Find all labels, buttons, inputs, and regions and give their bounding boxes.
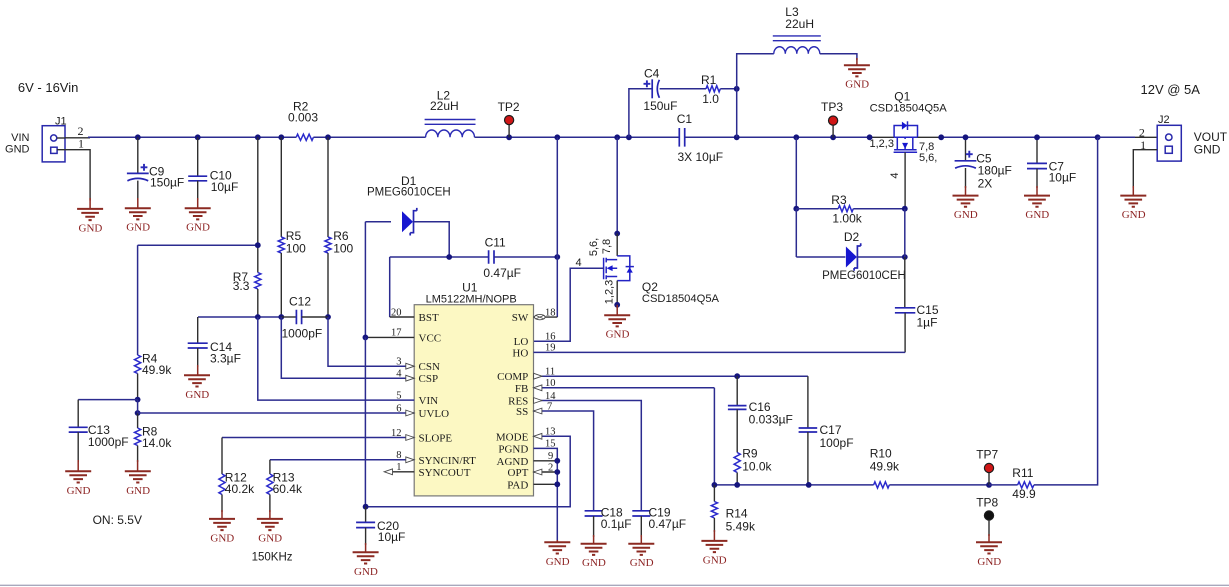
svg-text:UVLO: UVLO xyxy=(419,408,450,420)
wire FB node row xyxy=(713,388,715,485)
svg-text:MODE: MODE xyxy=(496,431,529,443)
svg-text:VIN: VIN xyxy=(419,395,439,407)
wire bus to J2 xyxy=(1098,136,1135,138)
junction R1 to L3 riser xyxy=(734,86,740,92)
capacitor C12 1000pF xyxy=(281,316,296,318)
svg-text:GND: GND xyxy=(79,222,103,234)
resistor R9 10.0k xyxy=(736,409,738,452)
junction C10 tap xyxy=(195,134,201,140)
pin PAD stub xyxy=(534,483,558,485)
junction Q1 source side xyxy=(867,134,873,140)
wire Q1 gate down xyxy=(904,152,906,208)
svg-text:GND: GND xyxy=(126,485,150,497)
svg-text:GND: GND xyxy=(210,532,234,544)
test point TP2 xyxy=(508,124,510,137)
svg-text:2: 2 xyxy=(548,462,553,473)
connector J2 xyxy=(1157,125,1181,161)
ground L3 xyxy=(844,65,870,76)
capacitor C11 0.47uF xyxy=(489,250,494,263)
svg-text:LM5122MH/NOPB: LM5122MH/NOPB xyxy=(426,294,517,306)
resistor R7 3.3 xyxy=(257,137,259,272)
wire C15 to HO xyxy=(904,313,906,353)
svg-text:15: 15 xyxy=(545,439,556,450)
wire VIN bus xyxy=(88,136,296,138)
ground R12 xyxy=(209,519,235,530)
pin 1 SYNCOUT stub xyxy=(393,471,415,473)
svg-text:C12: C12 xyxy=(289,295,311,309)
wire R11 to output xyxy=(1034,137,1098,485)
transistor Q2 CSD18504Q5A xyxy=(604,256,630,281)
junction R6 tap xyxy=(325,134,331,140)
svg-text:22uH: 22uH xyxy=(430,99,459,113)
svg-text:49.9k: 49.9k xyxy=(870,460,900,474)
junction TP2 tap xyxy=(506,134,512,140)
svg-text:16: 16 xyxy=(545,332,556,343)
junction R4/C13 xyxy=(135,397,141,403)
junction TP3 tap xyxy=(830,134,836,140)
wire VIN to R4 xyxy=(138,244,258,246)
junction D2 cathode / gate xyxy=(902,254,908,260)
wire output bus xyxy=(918,136,942,138)
capacitor C17 100pF xyxy=(807,376,809,428)
op-amp U1 LM5122MH/NOPB controller body xyxy=(414,305,533,496)
svg-text:TP7: TP7 xyxy=(976,448,998,462)
pin 7 SS stub xyxy=(534,411,594,511)
svg-text:GND: GND xyxy=(606,329,630,341)
resistor R12 40.2k xyxy=(221,438,223,475)
ground Q2 xyxy=(604,315,630,326)
svg-text:TP3: TP3 xyxy=(821,100,843,114)
svg-text:GND: GND xyxy=(845,79,869,91)
wire L3 to ground xyxy=(820,54,857,60)
pin 9 AGND stub xyxy=(534,460,558,462)
svg-text:13: 13 xyxy=(545,427,556,438)
svg-text:5: 5 xyxy=(396,390,401,401)
svg-text:10µF: 10µF xyxy=(1049,171,1077,185)
junction UVLO tap xyxy=(135,410,141,416)
svg-text:GND: GND xyxy=(185,389,209,401)
junction MODE tie to VCC xyxy=(363,504,369,510)
junction C7 tap xyxy=(1034,134,1040,140)
wire C4 branch up xyxy=(629,89,652,138)
svg-text:1000pF: 1000pF xyxy=(88,435,129,449)
junction VCC vertical xyxy=(363,335,369,341)
svg-text:GND: GND xyxy=(186,222,210,234)
junction CSN node xyxy=(325,314,331,320)
svg-text:5.49k: 5.49k xyxy=(726,520,756,534)
capacitor C4 150uF xyxy=(644,80,651,87)
svg-text:8: 8 xyxy=(396,450,401,461)
svg-text:GND: GND xyxy=(5,144,30,156)
svg-text:OPT: OPT xyxy=(508,467,529,479)
test point TP8 xyxy=(984,511,993,520)
svg-text:0.003: 0.003 xyxy=(288,111,318,125)
junction PAD xyxy=(554,481,560,487)
svg-text:1000pF: 1000pF xyxy=(282,327,323,341)
svg-text:GND: GND xyxy=(630,557,654,569)
resistor R4 49.9k xyxy=(135,355,141,374)
resistor R8 14.0k xyxy=(137,413,139,428)
capacitor C15 1uF xyxy=(895,308,915,313)
wire J1 pin2 to bus xyxy=(57,137,65,139)
wire L3 riser xyxy=(736,89,738,138)
wire BST row xyxy=(389,257,391,317)
svg-text:PMEG6010CEH: PMEG6010CEH xyxy=(367,187,451,199)
junction COMP branch xyxy=(734,373,740,379)
svg-text:10: 10 xyxy=(545,378,556,389)
wire C13 to divider xyxy=(78,399,137,401)
junction R3 left xyxy=(793,206,799,212)
svg-text:100pF: 100pF xyxy=(820,436,854,450)
svg-text:1: 1 xyxy=(78,137,84,151)
page frame bottom edge xyxy=(0,584,1229,586)
capacitor C9 150uF xyxy=(137,137,139,173)
resistor R3 1.00k xyxy=(796,208,838,210)
capacitor C13 1000pF xyxy=(77,400,79,428)
svg-text:R14: R14 xyxy=(726,507,748,521)
svg-text:17: 17 xyxy=(391,328,402,339)
svg-text:19: 19 xyxy=(545,343,556,354)
svg-text:R1: R1 xyxy=(701,73,717,87)
svg-text:PAD: PAD xyxy=(507,479,528,491)
svg-text:TP2: TP2 xyxy=(498,100,520,114)
capacitor C1 3X 10uF (series plates on bus) xyxy=(679,128,684,147)
ground C20 xyxy=(353,552,379,563)
resistor R13 60.4k xyxy=(269,460,271,474)
svg-text:CSD18504Q5A: CSD18504Q5A xyxy=(642,293,720,305)
pin 8 SYNCIN/RT stub xyxy=(270,459,414,461)
junction Q2 drain xyxy=(614,231,620,237)
svg-text:J1: J1 xyxy=(55,115,67,127)
svg-text:12: 12 xyxy=(391,428,402,439)
test point TP3 xyxy=(832,125,834,138)
svg-text:4: 4 xyxy=(576,257,582,269)
junction FB/R14 xyxy=(712,482,718,488)
junction C5 tap xyxy=(963,134,969,140)
wire SW vertical xyxy=(556,137,558,257)
junction CSP node xyxy=(278,314,284,320)
svg-text:C11: C11 xyxy=(485,236,506,250)
svg-text:GND: GND xyxy=(1194,142,1221,156)
wire CSP node row with C14 tap xyxy=(198,316,258,318)
svg-text:100: 100 xyxy=(286,241,306,255)
svg-text:HO: HO xyxy=(512,347,528,359)
wire TP8 to ground xyxy=(988,520,990,536)
pin 20 BST stub xyxy=(390,316,415,318)
svg-text:6: 6 xyxy=(396,403,401,414)
wire Q2 source xyxy=(616,281,618,305)
svg-text:3X 10µF: 3X 10µF xyxy=(678,150,724,164)
ground C19 xyxy=(628,544,654,555)
transistor Q1 CSD18504Q5A xyxy=(894,126,918,153)
wire J1 pin1 to ground xyxy=(57,150,90,201)
svg-text:14: 14 xyxy=(545,391,556,402)
svg-text:R3: R3 xyxy=(831,193,847,207)
pin 15 PGND stub xyxy=(534,448,558,542)
pin 4 CSP stub xyxy=(281,317,414,378)
resistor R10 49.9k xyxy=(874,482,890,488)
wire bus C1 to Q1 xyxy=(685,136,870,138)
svg-text:VCC: VCC xyxy=(419,332,442,344)
svg-text:FB: FB xyxy=(515,383,528,395)
svg-text:CSD18504Q5A: CSD18504Q5A xyxy=(870,102,948,114)
svg-text:C1: C1 xyxy=(677,112,693,126)
svg-text:CSP: CSP xyxy=(419,373,439,385)
capacitor C14 3.3uF xyxy=(197,317,199,343)
resistor R6 100 xyxy=(327,137,329,237)
svg-text:150µF: 150µF xyxy=(150,175,184,189)
svg-text:BST: BST xyxy=(419,312,439,324)
svg-text:J2: J2 xyxy=(1158,114,1170,126)
pin 19 HO stub xyxy=(534,351,906,353)
junction C4 branch tap xyxy=(626,134,632,140)
svg-text:R11: R11 xyxy=(1012,466,1033,480)
svg-text:AGND: AGND xyxy=(497,456,529,468)
junction R3 branch tap xyxy=(793,134,799,140)
pin 11 COMP stub xyxy=(534,375,808,377)
svg-text:GND: GND xyxy=(258,532,282,544)
svg-text:ON: 5.5V: ON: 5.5V xyxy=(93,513,142,527)
junction R4 top on R7 branch xyxy=(255,242,261,248)
svg-text:4: 4 xyxy=(396,369,402,380)
svg-text:11: 11 xyxy=(545,367,555,378)
diode D1 PMEG6010CEH xyxy=(402,211,413,232)
junction R7/VIN node xyxy=(255,314,261,320)
svg-text:4: 4 xyxy=(889,172,901,178)
svg-text:0.033µF: 0.033µF xyxy=(749,412,793,426)
wire D1 cathode to C11 row xyxy=(414,222,450,257)
junction C9 tap xyxy=(135,134,141,140)
svg-text:1µF: 1µF xyxy=(917,316,938,330)
ground C14 xyxy=(184,375,210,386)
ground R8 xyxy=(125,471,151,482)
wire D2 branch xyxy=(795,209,797,257)
svg-text:0.47µF: 0.47µF xyxy=(649,517,687,531)
svg-text:1,2,3: 1,2,3 xyxy=(870,138,894,150)
resistor R2 0.003 shunt xyxy=(296,134,313,140)
svg-text:1.00k: 1.00k xyxy=(832,212,862,226)
svg-text:COMP: COMP xyxy=(497,371,528,383)
svg-text:GND: GND xyxy=(703,554,727,566)
resistor R5 100 xyxy=(280,137,282,237)
junction Q1 drain side xyxy=(938,134,944,140)
wire VCC to D1 anode xyxy=(364,222,366,338)
svg-text:7,8: 7,8 xyxy=(919,141,934,153)
svg-text:40.2k: 40.2k xyxy=(225,482,255,496)
pin 17 VCC stub xyxy=(365,336,414,338)
junction R3 right / gate xyxy=(902,206,908,212)
svg-text:49.9: 49.9 xyxy=(1012,487,1036,501)
junction AGND xyxy=(554,458,560,464)
svg-text:VIN: VIN xyxy=(11,132,29,144)
svg-text:100: 100 xyxy=(333,241,353,255)
ground J1 xyxy=(77,209,103,220)
junction TP7 xyxy=(986,482,992,488)
svg-text:SLOPE: SLOPE xyxy=(419,433,453,445)
capacitor C19 0.47uF (RES) xyxy=(632,511,650,516)
pin 10 FB stub xyxy=(534,387,715,389)
svg-text:Q2: Q2 xyxy=(642,280,658,294)
svg-text:150KHz: 150KHz xyxy=(252,551,293,563)
ground R14 xyxy=(701,541,727,552)
svg-text:SYNCOUT: SYNCOUT xyxy=(419,467,471,479)
svg-text:12V @ 5A: 12V @ 5A xyxy=(1141,82,1201,97)
junction R5 tap xyxy=(278,134,284,140)
capacitor C20 10uF xyxy=(365,507,367,523)
svg-text:1: 1 xyxy=(396,462,401,473)
svg-text:GND: GND xyxy=(1025,209,1049,221)
svg-text:2X: 2X xyxy=(978,176,993,190)
wire gate node down to C15 xyxy=(904,209,906,257)
inductor L2 22uH xyxy=(426,130,475,137)
svg-text:1.0: 1.0 xyxy=(702,92,719,106)
ground R13 xyxy=(257,519,283,530)
ground C5 xyxy=(953,196,979,207)
svg-text:49.9k: 49.9k xyxy=(142,363,172,377)
ground C13 xyxy=(65,471,91,482)
svg-text:PMEG6010CEH: PMEG6010CEH xyxy=(822,270,906,282)
ground C10 xyxy=(185,208,211,219)
wire D2 cathode to gate node xyxy=(858,256,905,258)
svg-text:SW: SW xyxy=(512,312,529,324)
wire SW node bus xyxy=(475,136,680,138)
capacitor C5 180uF 2X xyxy=(965,137,967,161)
svg-text:GND: GND xyxy=(354,566,378,578)
pin 13 MODE stub xyxy=(366,436,571,506)
svg-text:PGND: PGND xyxy=(498,443,528,455)
svg-text:CSN: CSN xyxy=(419,361,440,373)
capacitor C7 10uF xyxy=(1036,137,1038,163)
test point TP7 xyxy=(988,473,990,485)
resistor R1 1.0 xyxy=(706,86,720,92)
wire J2 pin1 to ground xyxy=(1133,150,1157,188)
svg-text:180µF: 180µF xyxy=(978,163,1012,177)
junction Q2 drain tap xyxy=(614,134,620,140)
svg-text:LO: LO xyxy=(514,336,529,348)
svg-text:GND: GND xyxy=(977,556,1001,568)
capacitor C16 0.033uF xyxy=(736,376,738,405)
pin 3 CSN stub xyxy=(328,317,414,366)
svg-text:3.3µF: 3.3µF xyxy=(210,352,241,366)
svg-text:10µF: 10µF xyxy=(211,180,239,194)
pin 6 UVLO stub xyxy=(138,412,415,414)
svg-text:C4: C4 xyxy=(644,67,660,81)
wire bus to Q2 drain xyxy=(616,137,618,233)
svg-text:0.1µF: 0.1µF xyxy=(601,517,632,531)
svg-text:3: 3 xyxy=(396,357,401,368)
resistor R14 5.49k xyxy=(713,485,715,502)
svg-text:18: 18 xyxy=(545,307,556,318)
svg-text:SS: SS xyxy=(516,406,528,418)
svg-text:D2: D2 xyxy=(844,230,860,244)
svg-text:C17: C17 xyxy=(820,423,842,437)
svg-text:GND: GND xyxy=(126,222,150,234)
pin 18 SW stub xyxy=(534,316,558,318)
svg-text:9: 9 xyxy=(548,451,553,462)
svg-text:20: 20 xyxy=(391,307,402,318)
connector J1 xyxy=(42,126,65,162)
svg-text:14.0k: 14.0k xyxy=(142,436,172,450)
junction D1 cathode / BST xyxy=(446,254,452,260)
ground TP8 xyxy=(976,542,1002,553)
ground U1 PGND xyxy=(556,540,558,542)
svg-text:5,6,: 5,6, xyxy=(919,152,937,164)
svg-text:6V - 16Vin: 6V - 16Vin xyxy=(18,80,78,95)
wire bus R2 to L2 xyxy=(313,136,425,138)
body diode Q1 xyxy=(902,122,907,130)
svg-text:R10: R10 xyxy=(870,447,892,461)
ground C18 xyxy=(581,544,607,555)
svg-text:TP8: TP8 xyxy=(976,496,998,510)
svg-text:7: 7 xyxy=(547,401,552,412)
junction R9 bottom xyxy=(734,482,740,488)
body diode Q2 xyxy=(627,267,633,272)
wire LO to Q2 gate xyxy=(534,268,604,341)
svg-text:150uF: 150uF xyxy=(643,99,677,113)
junction C11/SW vertical tap xyxy=(554,134,560,140)
svg-text:GND: GND xyxy=(546,556,570,568)
junction R7 tap xyxy=(255,134,261,140)
svg-text:7,8: 7,8 xyxy=(601,239,613,254)
svg-text:10.0k: 10.0k xyxy=(742,459,772,473)
svg-text:1,2,3: 1,2,3 xyxy=(604,280,616,304)
svg-text:22uH: 22uH xyxy=(785,17,814,31)
pin 5 VIN stub xyxy=(258,317,414,400)
ground J2 xyxy=(1120,196,1146,207)
junction Q2 source xyxy=(614,302,620,308)
diode D2 PMEG6010CEH xyxy=(846,247,857,268)
svg-text:0.47µF: 0.47µF xyxy=(483,266,521,280)
ground C7 xyxy=(1024,196,1050,207)
svg-text:GND: GND xyxy=(954,209,978,221)
svg-text:SYNCIN/RT: SYNCIN/RT xyxy=(419,455,477,467)
svg-text:3.3: 3.3 xyxy=(233,279,250,293)
inductor L3 22uH xyxy=(774,47,820,54)
junction C11 to SW vertical xyxy=(554,254,560,260)
svg-text:GND: GND xyxy=(582,557,606,569)
pin 14 RES stub xyxy=(534,401,642,511)
capacitor C18 0.1uF (SS) xyxy=(585,511,603,516)
svg-text:GND: GND xyxy=(1122,209,1146,221)
wire SW to R3/D2 xyxy=(795,137,797,208)
capacitor C10 10uF xyxy=(197,137,199,176)
svg-text:10µF: 10µF xyxy=(378,530,406,544)
svg-text:5,6,: 5,6, xyxy=(588,238,600,256)
junction R1/L3 branch tap xyxy=(734,134,740,140)
ground C9 xyxy=(125,208,151,219)
pin 12 SLOPE stub xyxy=(222,437,414,439)
junction output sense tap xyxy=(1095,134,1101,140)
svg-text:GND: GND xyxy=(67,485,91,497)
wire VCC rail down xyxy=(364,337,366,506)
svg-text:60.4k: 60.4k xyxy=(273,482,303,496)
junction C17 bottom xyxy=(806,482,812,488)
resistor R11 49.9 xyxy=(989,484,1018,486)
pin 2 OPT stub xyxy=(534,471,558,473)
junction OPT xyxy=(554,469,560,475)
